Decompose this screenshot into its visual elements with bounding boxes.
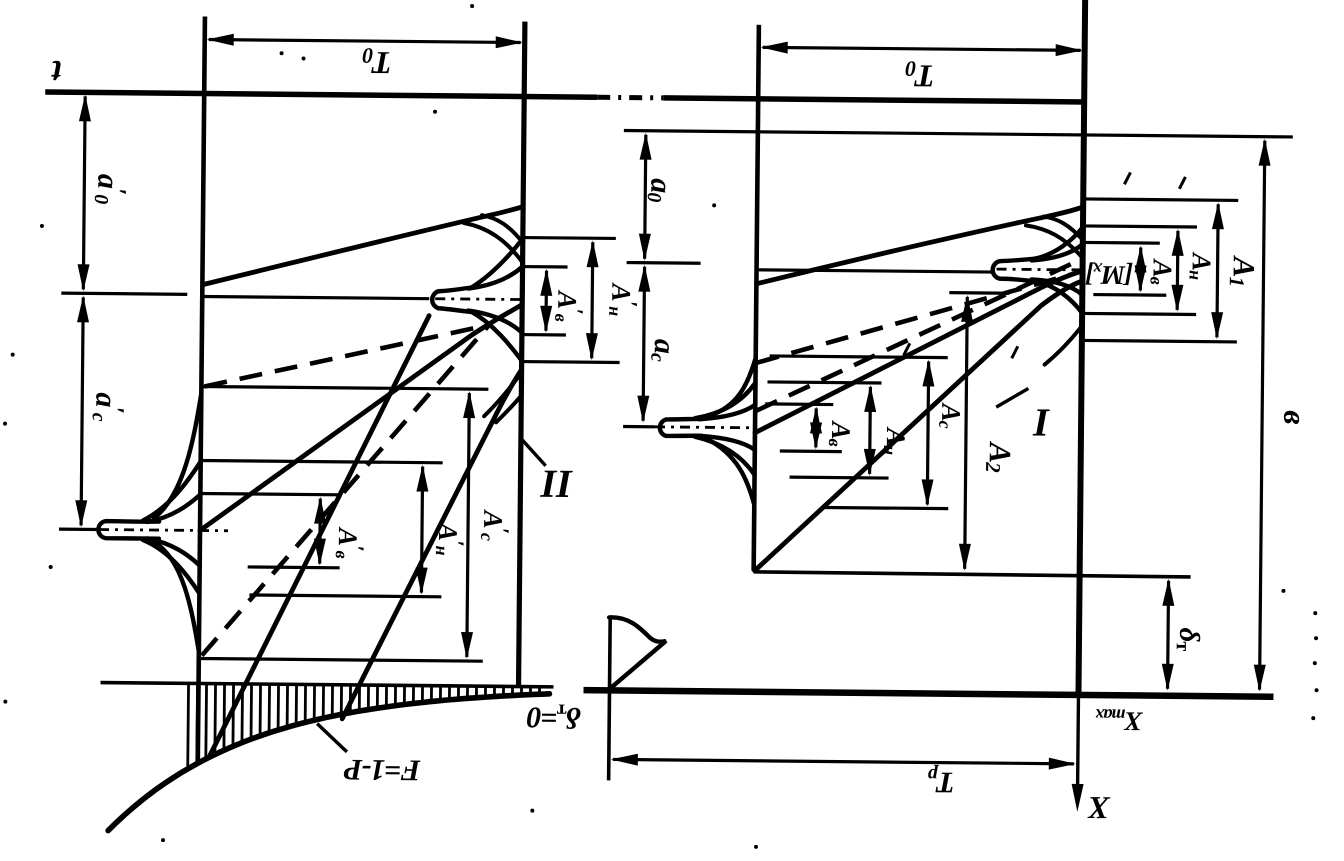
- line Av big top (right): [765, 402, 833, 406]
- svg-text:I: I: [1032, 399, 1050, 444]
- small bell finger (left diagram): [432, 286, 476, 312]
- dimension ac: [643, 267, 644, 421]
- big bell dash-dot centre (right): [655, 425, 757, 429]
- leader line for II: [522, 440, 546, 466]
- line An top (right): [1083, 226, 1197, 227]
- big bell outer bottom (right): [705, 438, 755, 504]
- line An big top (right): [767, 382, 881, 383]
- centre line of small bell level: [202, 296, 429, 298]
- svg-text:δт=0: δт=0: [526, 700, 581, 735]
- big bell outer bottom (left): [153, 542, 200, 651]
- small bell dash-dot centre (left): [435, 297, 522, 301]
- small bell inner top (right): [1032, 243, 1083, 260]
- big bell inner top (right): [699, 404, 755, 420]
- dimension v total: [1260, 141, 1265, 690]
- right diagram left vertical: [754, 25, 759, 571]
- line A'n bottom (left): [522, 360, 620, 364]
- extension pole at x=612: [609, 616, 611, 780]
- step line bottom of right diagram: [754, 572, 1191, 577]
- svg-text:X: X: [1087, 790, 1110, 826]
- line A'v bottom (left): [522, 333, 566, 337]
- small bell outer top (right): [1034, 226, 1083, 259]
- line Ac bottom (right): [824, 507, 948, 508]
- dimension Ac (right): [927, 361, 928, 504]
- dimension An big (right): [868, 387, 872, 474]
- dimension Tp: [613, 759, 1074, 763]
- dimension A2: [965, 297, 968, 569]
- line A'n big bottom (left): [249, 595, 441, 597]
- dimension delta_t: [1168, 581, 1169, 689]
- line A1 bottom: [1082, 340, 1237, 341]
- line Av big bottom (right): [780, 449, 842, 453]
- upper horn curve 2 left: [482, 215, 523, 242]
- big bell inner top (left): [147, 494, 200, 523]
- small bell dash-dot centre (right): [997, 268, 1083, 272]
- big bell middle bottom (left): [142, 540, 200, 594]
- dimension An small (right): [1176, 231, 1180, 310]
- small bell finger (right): [993, 258, 1042, 282]
- dimension A'c (left): [467, 393, 470, 657]
- line A'n top (left): [523, 236, 616, 240]
- left diagram left vertical: [198, 16, 205, 763]
- lower horn curve 2 left: [496, 395, 521, 422]
- dimension A'v big (left): [318, 499, 322, 564]
- big bell inner bottom (right): [699, 436, 755, 450]
- big bell outer top (right): [706, 357, 756, 417]
- line An bottom (right): [1082, 313, 1196, 314]
- big bell centre line (left): [59, 528, 99, 532]
- big bell outer top (left): [154, 393, 201, 518]
- steep slant P (left): [210, 314, 429, 758]
- line A'v big bottom (left): [248, 565, 340, 569]
- big bell finger (right): [660, 418, 702, 436]
- big bell middle bottom (right): [695, 437, 755, 475]
- dimension T0 left: [209, 40, 521, 43]
- dimension a0: [645, 135, 646, 259]
- dimension T0 right: [763, 47, 1081, 50]
- dimension a'0: [83, 96, 85, 289]
- left diagram right vertical (thick): [519, 22, 525, 687]
- right diagram right vertical (thick): [1078, 0, 1085, 696]
- upper horn curve 2 right: [1044, 217, 1083, 240]
- upper horn curve 1 left: [464, 223, 523, 263]
- small bell inner bottom (right): [1031, 279, 1082, 294]
- mid slant M1 through big bell centre (left): [200, 301, 522, 533]
- svg-text:[Mx]: [Mx]: [1085, 259, 1133, 290]
- line A'v big top (left): [199, 493, 339, 494]
- upper slant of wedge (left diagram): [203, 203, 523, 287]
- dimension A'n small (left): [592, 242, 593, 358]
- X axis below baseline: [1077, 696, 1078, 804]
- line Ac top (right): [770, 356, 948, 358]
- small bell inner curve bottom (left): [468, 311, 522, 333]
- svg-text:F=1-P: F=1-P: [343, 753, 421, 787]
- small bell outer curve top (left): [471, 238, 522, 288]
- dashed line D1' (right): [757, 271, 1074, 366]
- line A'v top (left): [523, 265, 568, 269]
- lower horn curve 1 left: [484, 372, 521, 416]
- mid slant M1' (right): [755, 268, 1083, 436]
- dashed line D1 (left): [204, 323, 488, 390]
- lower horn curve right: [1045, 326, 1082, 365]
- big bell dash-dot centre (left): [99, 530, 228, 531]
- hatching under curve F: [186, 683, 190, 768]
- X axis arrowhead: [1071, 784, 1083, 812]
- dimension a'c: [81, 297, 83, 525]
- big bell inner bottom (left): [147, 538, 200, 565]
- thick baseline right: [583, 690, 1273, 697]
- dimension A1: [1217, 204, 1218, 337]
- dimension A'v small (left): [544, 271, 548, 331]
- line A'n big top (left): [200, 460, 443, 462]
- upper horn curve 1 right: [1026, 225, 1083, 258]
- dashed line D2' (right): [756, 260, 1073, 414]
- svg-text:в: в: [1277, 410, 1313, 424]
- dimension Av big (right): [814, 408, 818, 447]
- steep slant Q (left): [342, 368, 521, 721]
- flag symbol at Tp origin: [609, 617, 667, 687]
- line Av top (right): [1083, 241, 1160, 245]
- big bell finger (left): [98, 521, 159, 539]
- cumulative curve F (left bottom): [108, 690, 549, 835]
- dimension Av small (right): [1139, 247, 1143, 290]
- line A'c bottom (left): [199, 658, 483, 661]
- upper slant of wedge (right): [756, 204, 1083, 287]
- line A2 top (short): [949, 291, 1009, 295]
- line A'c top (left): [201, 386, 488, 389]
- dimension A'n big (left): [421, 467, 422, 593]
- scan specks (noise): [302, 56, 306, 60]
- main wedge slant W1 (right): [755, 278, 1083, 574]
- centre line small bell level (right): [759, 270, 994, 272]
- leader line for I: [996, 388, 1028, 407]
- thin baseline left: [101, 683, 554, 687]
- axis t top line (dash-dot gap): [597, 95, 663, 101]
- axis t top line (left solid part): [45, 92, 597, 97]
- line An big bottom (right): [790, 476, 889, 480]
- small bell inner curve top (left): [468, 266, 522, 289]
- leader line for F label: [317, 724, 347, 752]
- axis t top line (right solid part): [663, 98, 1084, 102]
- big bell centre tick (right): [623, 425, 655, 429]
- upper extension line a0 level: [624, 131, 1293, 137]
- big bell middle top (right): [695, 382, 755, 419]
- svg-text:II: II: [539, 461, 573, 506]
- dashed line D2 (left): [202, 324, 488, 659]
- small bell outer curve bottom (left): [471, 312, 522, 361]
- small bell outer bottom (right): [1033, 281, 1082, 313]
- boundary tick a'0/a'c: [61, 293, 187, 294]
- big bell middle top (left): [143, 461, 201, 521]
- line A1 top: [1083, 199, 1238, 200]
- line Av bottom (right): [1093, 293, 1166, 297]
- boundary tick a0/ac: [627, 261, 701, 265]
